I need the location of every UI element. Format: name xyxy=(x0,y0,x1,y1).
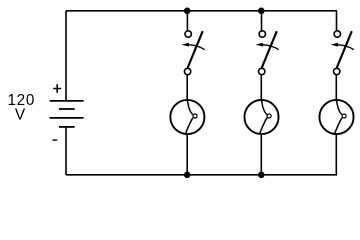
svg-text:V: V xyxy=(15,106,26,123)
